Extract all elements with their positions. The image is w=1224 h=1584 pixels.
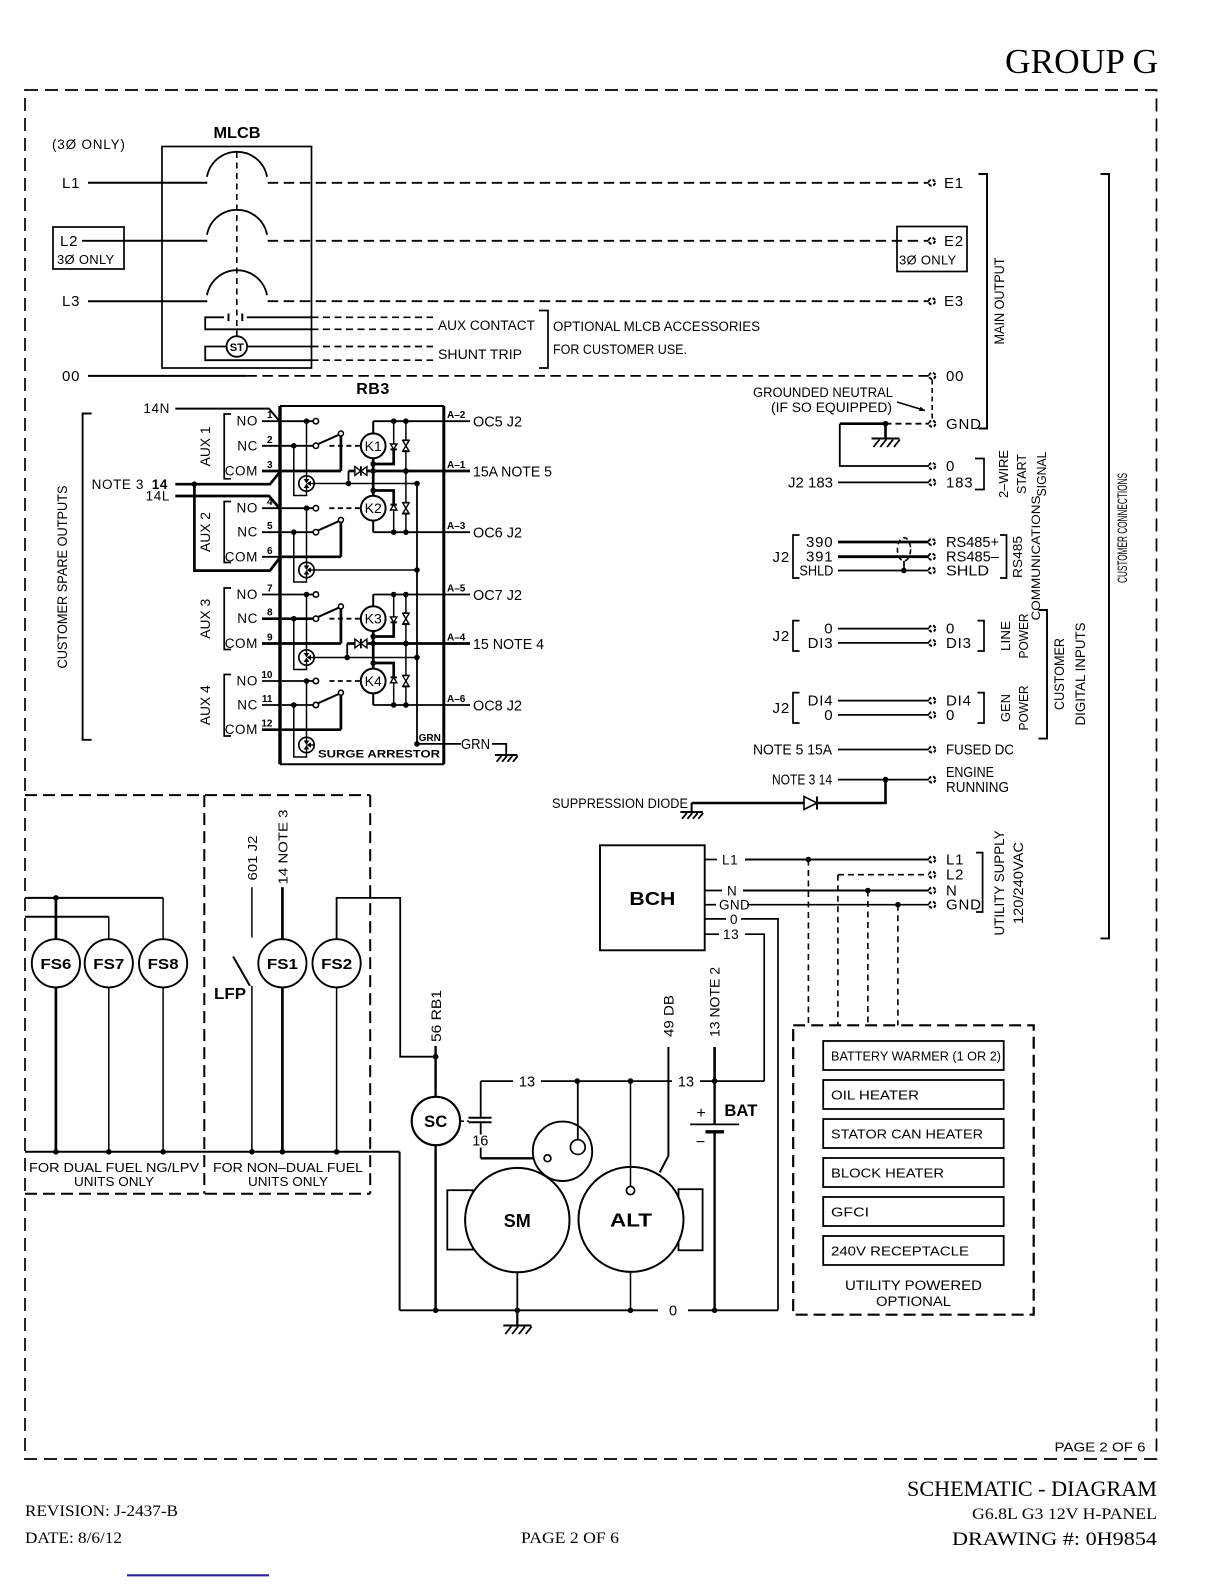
svg-text:BATTERY WARMER (1 OR 2): BATTERY WARMER (1 OR 2) <box>831 1049 1001 1064</box>
svg-text:ST: ST <box>230 342 244 354</box>
ground symbol suppression diode <box>680 812 703 819</box>
svg-text:SIGNAL: SIGNAL <box>1034 452 1049 497</box>
svg-text:13: 13 <box>678 1075 694 1091</box>
label AUX 4 <box>198 685 213 725</box>
title G6.8L G3 12V H-PANEL <box>972 1506 1157 1523</box>
svg-text:RUNNING: RUNNING <box>946 779 1009 796</box>
svg-text:0: 0 <box>669 1304 677 1320</box>
svg-text:DI3: DI3 <box>808 635 834 652</box>
wire 390 RS485+ <box>806 534 929 551</box>
svg-text:NOTE 3: NOTE 3 <box>92 477 144 492</box>
bracket RS485 communications <box>1000 535 1007 578</box>
wire 0 to 2-wire start <box>840 424 929 466</box>
relay coil K3 with flyback diode and TVS <box>361 592 444 708</box>
terminal E1 <box>929 175 964 192</box>
label AUX 3 <box>198 599 213 639</box>
svg-text:OC7 J2: OC7 J2 <box>473 587 522 604</box>
wire 14N <box>143 401 279 421</box>
wire 16 to starter motor solenoid <box>481 1157 545 1159</box>
svg-text:A–6: A–6 <box>447 694 466 705</box>
wire 0 line power <box>824 621 929 638</box>
surge arrestor SA3 output wire <box>314 655 420 661</box>
svg-text:−: − <box>696 1134 705 1151</box>
output 15 NOTE 4 (pin A&#8211;4) <box>444 633 544 654</box>
label FOR NON-DUAL FUEL UNITS ONLY <box>213 1160 363 1189</box>
relay block RB3 box <box>280 406 444 764</box>
ground symbol at GND terminal <box>872 424 900 447</box>
svg-text:K2: K2 <box>365 500 382 516</box>
output 15A NOTE 5 (pin A&#8211;1) <box>444 460 552 481</box>
label CUSTOMER SPARE OUTPUTS <box>54 486 70 669</box>
svg-text:CUSTOMER SPARE OUTPUTS: CUSTOMER SPARE OUTPUTS <box>54 486 70 669</box>
svg-text:13 NOTE 2: 13 NOTE 2 <box>708 967 723 1037</box>
breaker MLCB label <box>214 125 261 142</box>
svg-text:OPTIONAL: OPTIONAL <box>876 1294 952 1309</box>
label SHUNT TRIP <box>438 347 522 362</box>
svg-text:NOTE 3 14: NOTE 3 14 <box>772 772 832 789</box>
MLCB aux contact symbol <box>205 314 311 331</box>
starter motor SM bracket <box>447 1190 472 1249</box>
svg-text:OC8 J2: OC8 J2 <box>473 698 522 715</box>
svg-text:FS2: FS2 <box>321 956 352 973</box>
terminal E2 with 3Ø only box <box>897 227 967 272</box>
output OC5 J2 (pin A&#8211;2) <box>444 410 522 431</box>
load box BATTERY WARMER (1 OR 2) <box>823 1041 1004 1070</box>
breaker MLCB box <box>162 147 312 369</box>
svg-text:+: + <box>696 1105 705 1122</box>
svg-text:FS7: FS7 <box>93 956 124 973</box>
label AUX 1 <box>198 426 213 466</box>
bracket CUSTOMER CONNECTIONS <box>1101 174 1110 938</box>
blocking diode on 15A row A-1 <box>349 466 367 476</box>
svg-text:OC5 J2: OC5 J2 <box>473 414 522 431</box>
svg-text:FS1: FS1 <box>267 956 298 973</box>
suppression diode circuit <box>692 780 886 811</box>
svg-text:15A NOTE 5: 15A NOTE 5 <box>473 464 552 481</box>
wire SC vertical <box>433 1054 439 1313</box>
title SCHEMATIC - DIAGRAM <box>907 1476 1157 1501</box>
wire BCH GND <box>705 898 929 913</box>
svg-text:FS8: FS8 <box>148 956 179 973</box>
svg-text:FOR DUAL FUEL NG/LPV: FOR DUAL FUEL NG/LPV <box>29 1160 199 1175</box>
starter contactor SC <box>412 1097 460 1145</box>
svg-text:J2: J2 <box>773 628 790 645</box>
wire 13 to ALT field <box>626 1081 634 1195</box>
svg-text:14N: 14N <box>143 401 170 416</box>
surge arrestor SA1 output wire <box>314 481 420 487</box>
arrow to grounded neutral link <box>897 402 925 411</box>
svg-text:SC: SC <box>424 1113 448 1131</box>
MLCB common trip dashed link <box>236 152 238 336</box>
wire NOTE 5 15A fused dc <box>753 742 929 759</box>
wire L3 into MLCB <box>62 293 207 310</box>
wire A-4 corner to SA3 row <box>346 644 348 658</box>
svg-text:NO: NO <box>237 674 258 689</box>
load box 240V RECEPTACLE <box>823 1236 1004 1265</box>
label UTILITY POWERED OPTIONAL <box>845 1278 982 1309</box>
svg-text:16: 16 <box>472 1134 488 1150</box>
svg-text:NC: NC <box>237 525 258 540</box>
svg-text:OIL HEATER: OIL HEATER <box>831 1088 919 1103</box>
label (3Ø ONLY) <box>52 137 126 152</box>
connector J2 RS485 group <box>773 535 800 578</box>
relay coil K1 with flyback diode and TVS <box>361 418 444 535</box>
svg-text:6: 6 <box>267 546 273 557</box>
svg-text:CUSTOMER CONNECTIONS: CUSTOMER CONNECTIONS <box>1114 473 1130 583</box>
terminal RS485- <box>929 549 1000 566</box>
bracket AUX 2 <box>224 502 231 563</box>
terminal 00 <box>929 368 964 385</box>
svg-text:SHLD: SHLD <box>799 563 833 580</box>
svg-text:14L: 14L <box>146 489 170 504</box>
load box STATOR CAN HEATER <box>823 1119 1004 1148</box>
bracket AUX 3 <box>224 588 231 650</box>
terminal utility L1 <box>929 852 964 869</box>
svg-text:FS6: FS6 <box>40 956 71 973</box>
terminal 0 gen power <box>929 707 955 724</box>
terminal FUSED DC <box>929 742 1014 759</box>
wire grounded neutral dashed 00-GND <box>931 380 933 421</box>
svg-text:00: 00 <box>62 368 80 385</box>
wire J2 183 <box>788 475 929 492</box>
pin 6 COM stub <box>225 546 280 565</box>
svg-text:0: 0 <box>824 707 833 724</box>
terminal 0 line power <box>929 621 955 638</box>
terminal GND main output <box>929 416 982 433</box>
svg-text:J2 183: J2 183 <box>788 475 833 492</box>
svg-text:COM: COM <box>225 464 258 479</box>
title PAGE 2 OF 6 <box>521 1530 619 1547</box>
svg-text:601 J2: 601 J2 <box>245 836 260 881</box>
svg-text:AUX 2: AUX 2 <box>198 512 213 552</box>
svg-text:SM: SM <box>504 1211 531 1231</box>
bracket CUSTOMER SPARE OUTPUTS <box>83 414 92 740</box>
wire GND jumper <box>840 421 929 427</box>
svg-text:0: 0 <box>946 458 955 475</box>
label LINE POWER <box>998 614 1031 659</box>
svg-text:PAGE 2 OF 6: PAGE 2 OF 6 <box>521 1530 619 1547</box>
wire BCH 0 <box>705 912 778 1310</box>
pin 4 NO stub <box>237 497 280 516</box>
svg-text:UNITS ONLY: UNITS ONLY <box>248 1174 328 1189</box>
wire DI4 <box>808 693 929 710</box>
bracket 2-wire start signal <box>975 459 984 490</box>
svg-text:NC: NC <box>237 438 258 453</box>
svg-text:12: 12 <box>261 719 273 730</box>
svg-text:L2: L2 <box>60 233 78 250</box>
label PAGE 2 OF 6 small <box>1055 1440 1146 1455</box>
pin 9 COM stub <box>225 633 280 652</box>
SC contact 16 <box>460 1118 492 1159</box>
terminal E3 <box>929 293 964 310</box>
wire dashed L2 to utility box <box>837 875 839 1026</box>
svg-text:NC: NC <box>237 611 258 626</box>
svg-text:15 NOTE 4: 15 NOTE 4 <box>473 636 544 653</box>
note OPTIONAL MLCB ACCESSORIES FOR CUSTOMER USE. <box>553 319 760 357</box>
svg-text:A–1: A–1 <box>447 460 466 471</box>
title DATE: 8/6/12 <box>25 1530 122 1547</box>
starter solenoid pinion circle <box>533 1122 592 1181</box>
svg-text:GFCI: GFCI <box>831 1205 869 1220</box>
svg-text:OC6 J2: OC6 J2 <box>473 525 522 542</box>
wire 14L <box>146 489 280 509</box>
svg-text:183: 183 <box>946 475 973 492</box>
wire dashed GND to utility box <box>897 905 899 1026</box>
surge arrestor SA2 output wire <box>314 567 420 573</box>
dashed divider non-dual fuel <box>203 795 205 1194</box>
output OC6 J2 (pin A&#8211;3) <box>444 521 522 542</box>
bracket gen power <box>978 693 985 723</box>
bracket MAIN OUTPUT <box>979 174 988 429</box>
wire NOTE 3 14 branch to pin 6 <box>194 484 280 570</box>
svg-text:GND: GND <box>719 898 750 913</box>
svg-text:2–WIRE: 2–WIRE <box>996 450 1011 498</box>
svg-text:L3: L3 <box>62 293 80 310</box>
svg-text:L1: L1 <box>722 853 738 868</box>
relay AUX2 contact set (pins 4-6) <box>282 505 361 582</box>
output OC8 J2 (pin A&#8211;6) <box>444 694 522 715</box>
svg-text:49 DB: 49 DB <box>662 995 677 1037</box>
wire BCH N <box>705 884 929 899</box>
terminal ENGINE RUNNING <box>929 764 1009 796</box>
wire 56 RB1 stub <box>429 990 444 1057</box>
pin 7 NO stub <box>237 584 280 603</box>
wire 391 RS485- <box>806 549 929 566</box>
pin 1 NO stub <box>237 410 280 429</box>
svg-text:SHUNT TRIP: SHUNT TRIP <box>438 347 522 362</box>
terminal utility L2 <box>929 867 964 884</box>
wire row A-4 15 <box>367 641 444 647</box>
svg-text:11: 11 <box>262 694 273 705</box>
fuel solenoid FS1 <box>258 810 306 1152</box>
fuel solenoid FS6 <box>32 898 80 1152</box>
svg-text:14 NOTE 3: 14 NOTE 3 <box>275 810 290 885</box>
svg-text:POWER: POWER <box>1016 614 1031 659</box>
wire FS2 to 56 junction <box>337 898 436 1057</box>
svg-text:(IF SO EQUIPPED): (IF SO EQUIPPED) <box>771 400 892 415</box>
svg-text:K1: K1 <box>365 438 382 454</box>
wire BCH L1 <box>705 853 929 868</box>
wire aux contact dashed leads <box>312 317 434 329</box>
svg-text:NO: NO <box>237 587 258 602</box>
svg-text:AUX 3: AUX 3 <box>198 599 213 639</box>
blocking diode on 15 row A-4 <box>347 639 367 649</box>
svg-text:ALT: ALT <box>610 1211 652 1231</box>
svg-text:L1: L1 <box>62 175 80 192</box>
svg-text:UTILITY POWERED: UTILITY POWERED <box>845 1278 982 1293</box>
terminal 0 2-wire start <box>929 458 955 475</box>
terminal DI4 <box>929 693 972 710</box>
terminal 183 <box>929 475 973 492</box>
svg-text:N: N <box>727 884 737 899</box>
svg-text:GND: GND <box>946 416 982 433</box>
svg-text:DIGITAL INPUTS: DIGITAL INPUTS <box>1072 623 1088 726</box>
load box OIL HEATER <box>823 1080 1004 1109</box>
wire ALT to 0 bus <box>628 1272 634 1313</box>
svg-text:3: 3 <box>267 460 273 471</box>
bracket optional MLCB accessories <box>539 311 548 369</box>
wire 0 bus bottom <box>400 1304 778 1320</box>
svg-text:E3: E3 <box>944 293 964 310</box>
svg-text:2: 2 <box>267 435 273 446</box>
svg-text:AUX 1: AUX 1 <box>198 426 213 466</box>
wire GRN exit to ground <box>444 736 506 754</box>
bracket utility supply <box>976 853 983 912</box>
svg-text:3Ø ONLY: 3Ø ONLY <box>899 253 957 268</box>
svg-text:8: 8 <box>267 608 273 619</box>
breaker pole L3 arc <box>207 270 267 295</box>
svg-text:J2: J2 <box>773 700 790 717</box>
wire row A-1 15A <box>367 468 444 474</box>
alternator ALT <box>579 1167 684 1272</box>
label CUSTOMER DIGITAL INPUTS <box>1051 623 1088 726</box>
bracket AUX 4 <box>224 675 231 737</box>
wire L2 into MLCB <box>124 240 207 242</box>
twisted pair marker ellipse <box>897 538 910 571</box>
svg-text:SHLD: SHLD <box>946 563 989 580</box>
svg-text:GRN: GRN <box>419 733 441 744</box>
svg-text:DI3: DI3 <box>946 635 972 652</box>
svg-text:FOR NON–DUAL FUEL: FOR NON–DUAL FUEL <box>213 1160 363 1175</box>
wire L3 dashed to E3 <box>268 300 929 302</box>
ground bus GRN inside RB3 <box>416 484 418 744</box>
wire SHLD <box>799 563 929 580</box>
pin 12 COM stub <box>225 719 280 738</box>
svg-text:00: 00 <box>946 368 964 385</box>
terminal DI3 <box>929 635 972 652</box>
svg-text:NO: NO <box>237 414 258 429</box>
pin 3 COM stub <box>225 460 280 479</box>
svg-text:CUSTOMER: CUSTOMER <box>1051 638 1067 710</box>
svg-text:GROUP G: GROUP G <box>1005 42 1158 81</box>
decorative blue underline <box>127 1574 269 1576</box>
svg-text:BAT: BAT <box>724 1101 758 1120</box>
wire 13 NOTE 2 to battery <box>708 967 723 1081</box>
breaker pole L2 arc <box>207 210 267 235</box>
wire L1 into MLCB <box>62 175 207 192</box>
connector J2 gen power group <box>773 693 800 723</box>
svg-text:GEN: GEN <box>998 694 1013 722</box>
svg-text:A–5: A–5 <box>447 584 466 595</box>
MLCB shunt trip coil ST <box>205 336 311 361</box>
connector J2 line power group <box>773 621 800 651</box>
wire 49 DB to ALT <box>660 995 677 1172</box>
relay AUX1 contact set (pins 1-3) <box>282 418 361 495</box>
node L2 box 3Ø only <box>53 227 124 269</box>
wire fuel solenoid top feed 1 <box>25 895 163 901</box>
svg-text:REVISION: J-2437-B: REVISION: J-2437-B <box>25 1503 178 1520</box>
alternator ALT bracket <box>679 1189 703 1250</box>
svg-text:NO: NO <box>237 501 258 516</box>
label AUX 2 <box>198 512 213 552</box>
wire SM to 0 bus <box>515 1272 521 1313</box>
wire L2 dashed utility <box>838 874 929 876</box>
svg-text:SUPPRESSION DIODE: SUPPRESSION DIODE <box>552 796 688 811</box>
svg-text:(3Ø ONLY): (3Ø ONLY) <box>52 137 126 152</box>
wire dashed N to utility box <box>867 891 869 1026</box>
utility powered optional dashed box <box>793 1025 1033 1314</box>
svg-text:SCHEMATIC - DIAGRAM: SCHEMATIC - DIAGRAM <box>907 1476 1157 1501</box>
relay AUX4 contact set (pins 10-12) <box>282 678 361 757</box>
svg-text:MAIN OUTPUT: MAIN OUTPUT <box>991 257 1007 344</box>
wire DI3 <box>808 635 929 652</box>
wire dashed L1 to utility box <box>807 860 809 1026</box>
wire L1 dashed to E1 <box>268 182 929 184</box>
ground symbol below SM <box>503 1310 531 1334</box>
battery charger BCH box <box>600 845 705 950</box>
svg-text:120/240VAC: 120/240VAC <box>1010 842 1026 924</box>
relay AUX3 contact set (pins 7-9) <box>282 592 361 670</box>
svg-text:COMMUNICATIONS: COMMUNICATIONS <box>1031 495 1043 620</box>
pin 10 NO stub <box>237 670 280 689</box>
svg-text:RB3: RB3 <box>356 381 390 398</box>
wire BCH 13 <box>705 927 765 1081</box>
svg-text:L2: L2 <box>946 867 964 884</box>
wire L2 dashed to E2 <box>268 240 929 242</box>
wire 0 gen power <box>824 707 929 724</box>
wire GRN row and label <box>414 733 444 747</box>
svg-text:UTILITY SUPPLY: UTILITY SUPPLY <box>991 830 1007 936</box>
fuel solenoid FS7 <box>85 917 133 1152</box>
label SURGE ARRESTOR <box>318 749 440 761</box>
load box GFCI <box>823 1197 1004 1226</box>
load box BLOCK HEATER <box>823 1158 1004 1187</box>
pin 8 NC stub <box>237 608 280 627</box>
svg-text:GRN: GRN <box>461 736 490 753</box>
label GEN POWER <box>998 686 1031 731</box>
svg-text:START: START <box>1014 454 1029 494</box>
wire shunt trip dashed leads <box>312 347 434 361</box>
svg-text:STATOR CAN HEATER: STATOR CAN HEATER <box>831 1127 983 1142</box>
wire A-1 corner to SA1 row <box>348 471 350 484</box>
wire NOTE 3 14 <box>92 472 280 492</box>
wire 13 bus <box>481 1075 765 1118</box>
terminal RS485+ <box>929 534 1000 551</box>
wire fuel solenoid return bus <box>25 1149 400 1155</box>
svg-text:K3: K3 <box>365 611 382 627</box>
svg-text:DATE: 8/6/12: DATE: 8/6/12 <box>25 1530 122 1547</box>
svg-text:G6.8L G3 12V H-PANEL: G6.8L G3 12V H-PANEL <box>972 1506 1157 1523</box>
svg-text:NC: NC <box>237 698 258 713</box>
wire return bus to 0 <box>399 1152 401 1311</box>
svg-text:K4: K4 <box>365 673 382 689</box>
svg-text:A–2: A–2 <box>447 410 466 421</box>
svg-text:9: 9 <box>267 633 273 644</box>
svg-text:A–4: A–4 <box>447 633 466 644</box>
svg-text:LFP: LFP <box>214 986 246 1003</box>
label RS485 COMMUNICATIONS <box>1010 495 1043 620</box>
title DRAWING #: 0H9854 <box>952 1529 1158 1550</box>
svg-text:GROUNDED NEUTRAL: GROUNDED NEUTRAL <box>753 385 893 400</box>
svg-text:DRAWING #: 0H9854: DRAWING #: 0H9854 <box>952 1529 1158 1550</box>
svg-text:0: 0 <box>946 707 955 724</box>
svg-text:J2: J2 <box>773 549 790 566</box>
ground symbol below GRN <box>495 755 518 762</box>
svg-text:BLOCK HEATER: BLOCK HEATER <box>831 1166 944 1181</box>
terminal SHLD <box>929 563 989 580</box>
svg-text:0: 0 <box>730 912 738 927</box>
wire 13 to solenoid <box>577 1081 579 1140</box>
svg-text:POWER: POWER <box>1016 686 1031 731</box>
svg-text:E1: E1 <box>944 175 964 192</box>
fuel solenoid FS2 <box>313 939 361 1152</box>
svg-text:13: 13 <box>519 1075 535 1091</box>
breaker pole L1 arc <box>207 152 267 177</box>
svg-text:56 RB1: 56 RB1 <box>429 990 444 1042</box>
wire fuel solenoid top feed 2 <box>25 916 109 918</box>
svg-text:NOTE 5 15A: NOTE 5 15A <box>753 742 832 759</box>
relay block RB3 label <box>356 381 390 398</box>
